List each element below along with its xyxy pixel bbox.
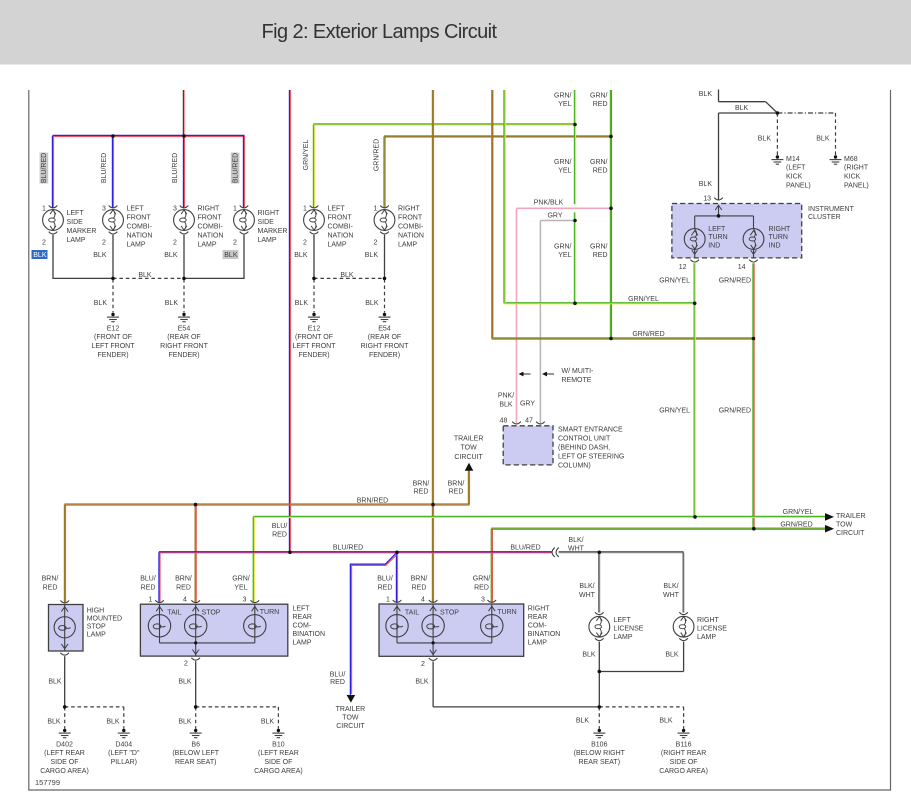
svg-text:KICK: KICK: [786, 174, 803, 181]
svg-text:GRY: GRY: [520, 400, 535, 407]
svg-text:BLK: BLK: [665, 651, 679, 658]
svg-text:LAMP: LAMP: [258, 237, 277, 244]
svg-text:LAMP: LAMP: [528, 639, 547, 646]
svg-text:M14: M14: [786, 156, 800, 163]
svg-text:TURN: TURN: [769, 234, 788, 241]
svg-text:COMBI-: COMBI-: [198, 223, 224, 230]
svg-text:BINATION: BINATION: [293, 631, 326, 638]
svg-text:4: 4: [421, 596, 425, 603]
svg-text:48: 48: [500, 417, 508, 424]
svg-text:GRN/YEL: GRN/YEL: [659, 277, 690, 284]
svg-text:(LEFT: (LEFT: [786, 165, 806, 172]
svg-text:TRAILER: TRAILER: [836, 513, 866, 520]
svg-text:COMBI-: COMBI-: [398, 223, 424, 230]
svg-text:BLK: BLK: [415, 678, 429, 685]
svg-text:BLU/RED: BLU/RED: [172, 153, 179, 183]
svg-text:BLK: BLK: [576, 718, 590, 725]
svg-text:LEFT: LEFT: [293, 605, 311, 612]
svg-text:2: 2: [303, 239, 307, 246]
svg-text:TOW: TOW: [460, 445, 477, 452]
svg-text:BLK/: BLK/: [568, 537, 583, 544]
svg-text:BLK: BLK: [165, 300, 179, 307]
svg-text:GRN/YEL: GRN/YEL: [783, 509, 814, 516]
svg-text:CIRCUIT: CIRCUIT: [836, 530, 865, 537]
svg-text:RIGHT: RIGHT: [769, 226, 792, 233]
svg-text:YEL: YEL: [234, 585, 247, 592]
svg-text:BLK: BLK: [164, 252, 178, 259]
svg-text:REAR: REAR: [528, 614, 547, 621]
svg-text:B116: B116: [676, 741, 692, 748]
svg-text:FRONT: FRONT: [198, 214, 223, 221]
svg-text:REAR SEAT): REAR SEAT): [579, 759, 621, 766]
svg-text:E12: E12: [107, 325, 120, 332]
svg-text:SMART ENTRANCE: SMART ENTRANCE: [558, 426, 623, 433]
svg-text:YEL: YEL: [558, 252, 571, 259]
svg-text:B106: B106: [591, 741, 607, 748]
svg-text:BLK/: BLK/: [579, 583, 594, 590]
svg-text:(LEFT "D": (LEFT "D": [108, 750, 140, 757]
svg-text:BLK: BLK: [735, 105, 749, 112]
svg-text:GRN/RED: GRN/RED: [780, 521, 812, 528]
svg-text:MARKER: MARKER: [67, 228, 97, 235]
svg-text:SIDE OF: SIDE OF: [670, 759, 698, 766]
svg-text:CLUSTER: CLUSTER: [808, 214, 841, 221]
svg-text:GRN/RED: GRN/RED: [719, 407, 751, 414]
svg-text:RIGHT FRONT: RIGHT FRONT: [160, 343, 208, 350]
svg-text:BLK: BLK: [94, 300, 108, 307]
svg-text:RED: RED: [414, 489, 429, 496]
svg-text:COM-: COM-: [293, 622, 312, 629]
svg-text:SIDE: SIDE: [258, 219, 275, 226]
svg-text:LAMP: LAMP: [398, 241, 417, 248]
svg-text:1: 1: [233, 206, 237, 213]
svg-text:(BEHIND DASH,: (BEHIND DASH,: [558, 444, 610, 451]
svg-text:2: 2: [42, 239, 46, 246]
svg-text:TRAILER: TRAILER: [454, 435, 484, 442]
svg-text:RED: RED: [141, 585, 156, 592]
svg-text:D402: D402: [56, 741, 73, 748]
svg-text:BLU/RED: BLU/RED: [232, 153, 239, 183]
svg-text:RIGHT FRONT: RIGHT FRONT: [361, 343, 409, 350]
svg-text:GRN/: GRN/: [590, 92, 608, 99]
svg-text:CONTROL UNIT: CONTROL UNIT: [558, 435, 611, 442]
svg-text:LAMP: LAMP: [67, 237, 86, 244]
svg-text:BLK: BLK: [499, 401, 513, 408]
svg-text:1: 1: [374, 206, 378, 213]
svg-text:BLK: BLK: [33, 252, 47, 259]
svg-text:RED: RED: [43, 585, 58, 592]
svg-text:GRN/YEL: GRN/YEL: [303, 140, 310, 171]
svg-text:LAMP: LAMP: [614, 634, 633, 641]
svg-text:B6: B6: [191, 741, 200, 748]
svg-text:BLU/RED: BLU/RED: [333, 545, 363, 552]
svg-text:COLUMN): COLUMN): [558, 462, 591, 469]
svg-text:INSTRUMENT: INSTRUMENT: [808, 206, 855, 213]
svg-text:RED: RED: [272, 532, 287, 539]
svg-text:LAMP: LAMP: [293, 639, 312, 646]
svg-text:KICK: KICK: [844, 174, 861, 181]
svg-text:(FRONT OF: (FRONT OF: [295, 334, 333, 341]
svg-text:1: 1: [42, 206, 46, 213]
svg-text:MARKER: MARKER: [258, 228, 288, 235]
svg-text:(LEFT REAR: (LEFT REAR: [44, 750, 85, 757]
svg-text:4: 4: [183, 596, 187, 603]
svg-text:BRN/: BRN/: [448, 480, 465, 487]
svg-text:FENDER): FENDER): [97, 352, 128, 359]
svg-text:RIGHT: RIGHT: [528, 605, 551, 612]
svg-text:BLK: BLK: [699, 181, 713, 188]
svg-text:TOW: TOW: [342, 715, 359, 722]
svg-text:GRN/RED: GRN/RED: [719, 277, 751, 284]
svg-text:RED: RED: [378, 585, 393, 592]
svg-text:E54: E54: [378, 325, 391, 332]
svg-text:LICENSE: LICENSE: [697, 625, 727, 632]
svg-text:3: 3: [173, 206, 177, 213]
svg-text:BLU/: BLU/: [272, 523, 288, 530]
svg-text:RED: RED: [593, 168, 608, 175]
svg-text:RED: RED: [474, 585, 489, 592]
svg-text:LEFT FRONT: LEFT FRONT: [292, 343, 336, 350]
svg-text:BLU/RED: BLU/RED: [510, 545, 540, 552]
svg-text:YEL: YEL: [558, 101, 571, 108]
svg-text:BLU/RED: BLU/RED: [41, 153, 48, 183]
svg-text:BLU/: BLU/: [377, 576, 393, 583]
svg-text:(LEFT REAR: (LEFT REAR: [258, 750, 299, 757]
svg-text:BLK: BLK: [261, 718, 275, 725]
svg-text:FENDER): FENDER): [369, 352, 400, 359]
svg-text:GRN/: GRN/: [590, 243, 608, 250]
svg-text:BLK: BLK: [93, 252, 107, 259]
svg-text:RED: RED: [593, 252, 608, 259]
svg-text:PNK/: PNK/: [498, 392, 514, 399]
svg-text:BLK/: BLK/: [663, 583, 678, 590]
svg-text:PNK/BLK: PNK/BLK: [534, 200, 564, 207]
svg-text:3: 3: [102, 206, 106, 213]
svg-text:B10: B10: [272, 741, 285, 748]
svg-text:BLU/: BLU/: [330, 671, 346, 678]
svg-text:TAIL: TAIL: [167, 609, 181, 616]
svg-text:COMBI-: COMBI-: [127, 223, 153, 230]
svg-text:LEFT: LEFT: [328, 205, 346, 212]
svg-text:BRN/: BRN/: [42, 576, 59, 583]
svg-text:BLK: BLK: [47, 718, 61, 725]
svg-text:GRN/: GRN/: [554, 92, 572, 99]
svg-text:BLK: BLK: [699, 91, 713, 98]
svg-text:GRN/: GRN/: [473, 576, 491, 583]
svg-text:STOP: STOP: [87, 624, 106, 631]
svg-text:MOUNTED: MOUNTED: [87, 615, 122, 622]
svg-text:NATION: NATION: [328, 232, 354, 239]
svg-text:COM-: COM-: [528, 622, 547, 629]
svg-text:LAMP: LAMP: [127, 241, 146, 248]
svg-text:PILLAR): PILLAR): [111, 759, 137, 766]
svg-text:2: 2: [233, 239, 237, 246]
svg-text:LEFT: LEFT: [127, 205, 145, 212]
svg-text:TURN: TURN: [260, 609, 279, 616]
svg-text:BLK: BLK: [340, 272, 354, 279]
svg-text:BLK: BLK: [365, 252, 379, 259]
svg-text:BLK: BLK: [178, 718, 192, 725]
svg-text:BRN/: BRN/: [413, 480, 430, 487]
svg-text:BRN/: BRN/: [175, 576, 192, 583]
svg-text:REMOTE: REMOTE: [562, 377, 592, 384]
svg-text:SIDE: SIDE: [67, 219, 84, 226]
svg-text:GRN/: GRN/: [554, 159, 572, 166]
svg-text:TOW: TOW: [836, 521, 853, 528]
svg-text:BLK: BLK: [295, 300, 309, 307]
svg-text:BLK: BLK: [816, 135, 830, 142]
svg-text:3: 3: [481, 596, 485, 603]
svg-text:1: 1: [386, 596, 390, 603]
svg-text:2: 2: [102, 239, 106, 246]
svg-text:IND: IND: [769, 243, 781, 250]
svg-text:NATION: NATION: [198, 232, 224, 239]
svg-text:13: 13: [703, 195, 711, 202]
svg-text:GRY: GRY: [547, 212, 562, 219]
svg-text:GRN/: GRN/: [590, 159, 608, 166]
svg-text:BLK: BLK: [106, 718, 120, 725]
svg-text:CARGO AREA): CARGO AREA): [254, 768, 303, 775]
svg-text:BLU/: BLU/: [140, 576, 156, 583]
svg-text:STOP: STOP: [440, 609, 459, 616]
svg-text:YEL: YEL: [558, 168, 571, 175]
svg-text:LAMP: LAMP: [198, 241, 217, 248]
svg-text:NATION: NATION: [127, 232, 153, 239]
svg-text:BLK: BLK: [582, 651, 596, 658]
svg-text:WHT: WHT: [663, 592, 680, 599]
svg-text:M68: M68: [844, 156, 858, 163]
svg-text:BINATION: BINATION: [528, 631, 561, 638]
svg-text:1: 1: [303, 206, 307, 213]
svg-text:47: 47: [525, 417, 533, 424]
svg-text:FRONT: FRONT: [328, 214, 353, 221]
svg-text:(RIGHT REAR: (RIGHT REAR: [661, 750, 706, 757]
svg-text:RIGHT: RIGHT: [198, 205, 221, 212]
svg-text:CARGO AREA): CARGO AREA): [659, 768, 708, 775]
svg-text:LEFT: LEFT: [614, 617, 632, 624]
svg-text:BLK: BLK: [294, 252, 308, 259]
svg-text:TRAILER: TRAILER: [336, 706, 366, 713]
svg-text:IND: IND: [708, 243, 720, 250]
svg-text:STOP: STOP: [202, 609, 221, 616]
svg-text:BLK: BLK: [659, 718, 673, 725]
svg-text:BLK: BLK: [224, 252, 238, 259]
svg-text:LEFT: LEFT: [708, 226, 726, 233]
svg-text:LICENSE: LICENSE: [614, 625, 644, 632]
svg-text:LAMP: LAMP: [328, 241, 347, 248]
svg-text:RED: RED: [330, 679, 345, 686]
svg-text:PANEL): PANEL): [844, 182, 869, 189]
svg-text:SIDE OF: SIDE OF: [50, 759, 78, 766]
svg-text:(RIGHT: (RIGHT: [844, 165, 869, 172]
svg-text:GRN/RED: GRN/RED: [632, 331, 664, 338]
svg-text:BLK: BLK: [48, 678, 62, 685]
svg-text:WHT: WHT: [579, 592, 596, 599]
svg-text:14: 14: [738, 264, 746, 271]
svg-text:(BELOW LEFT: (BELOW LEFT: [172, 750, 219, 757]
svg-text:WHT: WHT: [568, 546, 585, 553]
svg-text:3: 3: [243, 596, 247, 603]
svg-text:TAIL: TAIL: [405, 609, 419, 616]
svg-text:2: 2: [184, 660, 188, 667]
svg-text:LAMP: LAMP: [87, 632, 106, 639]
svg-text:BRN/RED: BRN/RED: [357, 497, 389, 504]
svg-text:FENDER): FENDER): [298, 352, 329, 359]
svg-text:PANEL): PANEL): [786, 182, 811, 189]
svg-text:TURN: TURN: [708, 234, 727, 241]
svg-text:157799: 157799: [35, 778, 60, 787]
svg-text:LEFT OF STEERING: LEFT OF STEERING: [558, 453, 624, 460]
svg-text:D404: D404: [115, 741, 132, 748]
svg-text:1: 1: [149, 596, 153, 603]
svg-text:2: 2: [374, 239, 378, 246]
svg-text:FRONT: FRONT: [398, 214, 423, 221]
svg-text:COMBI-: COMBI-: [328, 223, 354, 230]
svg-text:FRONT: FRONT: [127, 214, 152, 221]
svg-text:(FRONT OF: (FRONT OF: [94, 334, 132, 341]
svg-text:BLK: BLK: [758, 135, 772, 142]
svg-text:RED: RED: [449, 489, 464, 496]
svg-text:BRN/: BRN/: [411, 576, 428, 583]
svg-text:W/ MUITI-: W/ MUITI-: [562, 368, 595, 375]
svg-text:GRN/: GRN/: [232, 576, 250, 583]
svg-text:RIGHT: RIGHT: [697, 617, 720, 624]
svg-text:CARGO AREA): CARGO AREA): [40, 768, 89, 775]
svg-text:BLU/RED: BLU/RED: [101, 153, 108, 183]
svg-text:E12: E12: [308, 325, 321, 332]
svg-text:GRN/RED: GRN/RED: [373, 139, 380, 171]
svg-text:REAR: REAR: [293, 614, 312, 621]
svg-text:RED: RED: [593, 101, 608, 108]
svg-text:Fig 2: Exterior Lamps Circuit: Fig 2: Exterior Lamps Circuit: [262, 21, 498, 43]
svg-text:12: 12: [679, 264, 687, 271]
svg-text:BLK: BLK: [138, 272, 152, 279]
svg-text:SIDE OF: SIDE OF: [264, 759, 292, 766]
svg-text:(BELOW RIGHT: (BELOW RIGHT: [574, 750, 626, 757]
svg-text:GRN/YEL: GRN/YEL: [628, 296, 659, 303]
svg-text:GRN/YEL: GRN/YEL: [659, 407, 690, 414]
svg-text:RIGHT: RIGHT: [258, 210, 281, 217]
svg-text:BLK: BLK: [178, 678, 192, 685]
svg-text:HIGH: HIGH: [87, 607, 105, 614]
svg-text:RIGHT: RIGHT: [398, 205, 421, 212]
svg-text:LEFT FRONT: LEFT FRONT: [91, 343, 135, 350]
svg-text:2: 2: [173, 239, 177, 246]
svg-text:LAMP: LAMP: [697, 634, 716, 641]
svg-text:CIRCUIT: CIRCUIT: [454, 454, 483, 461]
svg-text:2: 2: [421, 661, 425, 668]
svg-text:E54: E54: [178, 325, 191, 332]
svg-text:CIRCUIT: CIRCUIT: [336, 723, 365, 730]
svg-text:LEFT: LEFT: [67, 210, 85, 217]
svg-text:(REAR OF: (REAR OF: [167, 334, 200, 341]
svg-text:RED: RED: [412, 585, 427, 592]
svg-text:REAR SEAT): REAR SEAT): [175, 759, 217, 766]
svg-text:RED: RED: [176, 585, 191, 592]
svg-text:(REAR OF: (REAR OF: [368, 334, 401, 341]
svg-text:TURN: TURN: [497, 609, 516, 616]
svg-text:GRN/: GRN/: [554, 243, 572, 250]
svg-text:BLK: BLK: [365, 300, 379, 307]
svg-text:FENDER): FENDER): [168, 352, 199, 359]
svg-text:NATION: NATION: [398, 232, 424, 239]
